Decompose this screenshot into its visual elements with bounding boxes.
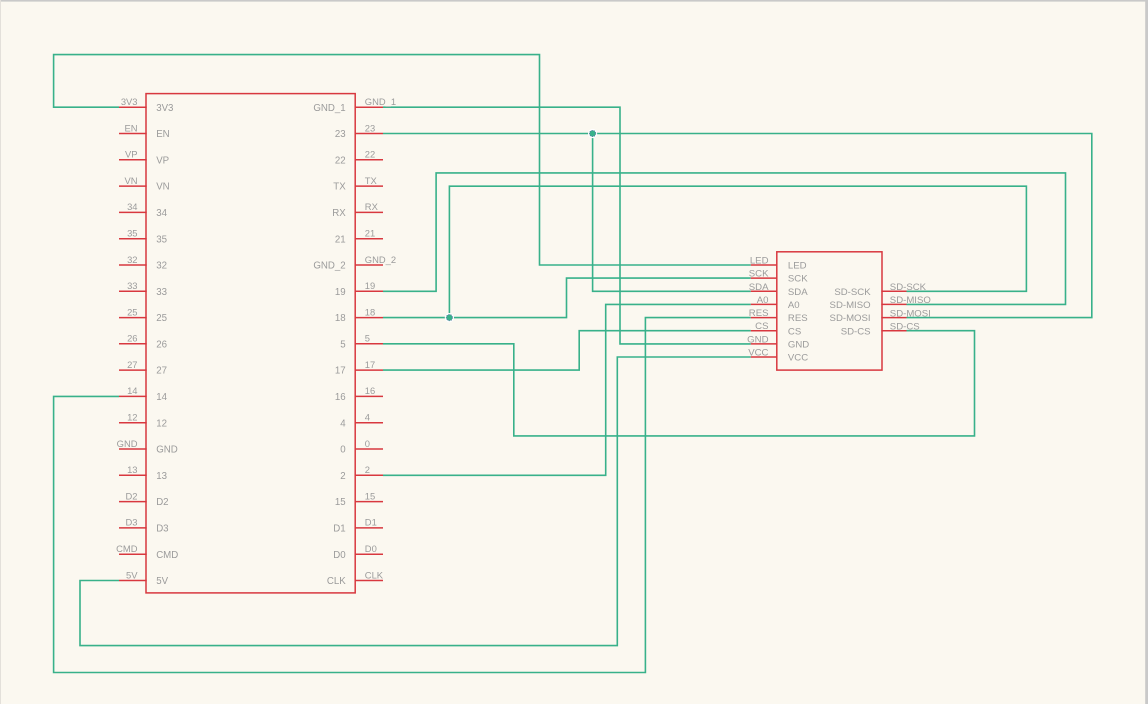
- svg-text:CMD: CMD: [156, 550, 178, 561]
- svg-text:18: 18: [335, 313, 346, 324]
- svg-text:12: 12: [127, 412, 137, 423]
- svg-text:A0: A0: [788, 300, 800, 311]
- svg-text:TX: TX: [333, 182, 346, 193]
- svg-text:D1: D1: [365, 517, 377, 528]
- svg-text:5V: 5V: [126, 569, 138, 580]
- svg-text:VP: VP: [156, 155, 169, 166]
- svg-text:D3: D3: [156, 524, 168, 535]
- svg-text:SD-CS: SD-CS: [890, 321, 920, 332]
- svg-text:13: 13: [127, 464, 137, 475]
- svg-text:VN: VN: [124, 175, 137, 186]
- svg-text:19: 19: [335, 287, 346, 298]
- svg-text:SD-MISO: SD-MISO: [830, 300, 871, 311]
- svg-text:5: 5: [365, 333, 370, 344]
- svg-text:16: 16: [335, 392, 346, 403]
- svg-text:D1: D1: [333, 524, 345, 535]
- svg-text:26: 26: [156, 339, 167, 350]
- svg-text:SCK: SCK: [788, 274, 808, 285]
- svg-text:25: 25: [127, 306, 137, 317]
- svg-text:D2: D2: [126, 490, 138, 501]
- svg-text:15: 15: [335, 497, 346, 508]
- svg-text:RX: RX: [332, 208, 346, 219]
- svg-text:3V3: 3V3: [156, 103, 173, 114]
- svg-text:21: 21: [365, 228, 375, 239]
- svg-text:A0: A0: [757, 295, 769, 306]
- svg-text:LED: LED: [788, 261, 807, 272]
- svg-text:SCK: SCK: [749, 269, 769, 280]
- svg-text:CS: CS: [755, 321, 768, 332]
- svg-text:GND_2: GND_2: [365, 254, 396, 265]
- svg-text:SD-SCK: SD-SCK: [890, 282, 927, 293]
- svg-text:GND_2: GND_2: [313, 261, 345, 272]
- svg-text:12: 12: [156, 418, 167, 429]
- svg-text:25: 25: [156, 313, 167, 324]
- svg-text:SDA: SDA: [788, 287, 808, 298]
- svg-text:SD-MISO: SD-MISO: [890, 295, 931, 306]
- svg-text:5V: 5V: [156, 576, 168, 587]
- svg-text:0: 0: [340, 445, 346, 456]
- svg-text:33: 33: [127, 280, 137, 291]
- svg-text:34: 34: [156, 208, 167, 219]
- svg-text:CS: CS: [788, 326, 801, 337]
- svg-text:SD-CS: SD-CS: [841, 326, 871, 337]
- svg-text:0: 0: [365, 438, 370, 449]
- svg-text:GND_1: GND_1: [313, 103, 345, 114]
- svg-text:GND: GND: [747, 334, 768, 345]
- svg-text:23: 23: [365, 122, 375, 133]
- svg-text:17: 17: [335, 366, 346, 377]
- svg-text:RES: RES: [788, 313, 808, 324]
- svg-text:3V3: 3V3: [121, 96, 138, 107]
- svg-text:33: 33: [156, 287, 167, 298]
- svg-text:GND: GND: [156, 445, 178, 456]
- svg-text:14: 14: [127, 385, 137, 396]
- svg-text:15: 15: [365, 490, 375, 501]
- svg-text:D3: D3: [126, 517, 138, 528]
- svg-text:4: 4: [365, 412, 370, 423]
- svg-text:GND: GND: [117, 438, 138, 449]
- svg-text:17: 17: [365, 359, 375, 370]
- svg-text:4: 4: [340, 418, 346, 429]
- svg-text:22: 22: [335, 155, 346, 166]
- svg-text:VCC: VCC: [748, 348, 768, 359]
- svg-text:32: 32: [127, 254, 137, 265]
- svg-text:19: 19: [365, 280, 375, 291]
- svg-text:D0: D0: [333, 550, 346, 561]
- svg-text:35: 35: [127, 228, 137, 239]
- svg-text:CMD: CMD: [116, 543, 138, 554]
- svg-text:5: 5: [340, 339, 345, 350]
- svg-text:GND: GND: [788, 340, 809, 351]
- svg-text:RX: RX: [365, 201, 379, 212]
- svg-text:16: 16: [365, 385, 375, 396]
- svg-text:VP: VP: [125, 149, 138, 160]
- svg-text:32: 32: [156, 261, 167, 272]
- svg-text:TX: TX: [365, 175, 378, 186]
- svg-text:26: 26: [127, 333, 137, 344]
- svg-text:EN: EN: [156, 129, 169, 140]
- svg-text:SD-MOSI: SD-MOSI: [890, 308, 931, 319]
- svg-text:LED: LED: [750, 256, 769, 267]
- svg-text:27: 27: [127, 359, 137, 370]
- svg-text:13: 13: [156, 471, 167, 482]
- svg-text:CLK: CLK: [365, 569, 384, 580]
- svg-text:EN: EN: [124, 122, 137, 133]
- svg-text:14: 14: [156, 392, 167, 403]
- svg-text:CLK: CLK: [327, 576, 346, 587]
- svg-text:SDA: SDA: [749, 282, 769, 293]
- svg-text:VCC: VCC: [788, 353, 808, 364]
- svg-text:D2: D2: [156, 497, 168, 508]
- svg-text:18: 18: [365, 306, 375, 317]
- svg-text:SD-MOSI: SD-MOSI: [830, 313, 871, 324]
- svg-text:2: 2: [340, 471, 345, 482]
- svg-text:D0: D0: [365, 543, 377, 554]
- svg-text:22: 22: [365, 149, 375, 160]
- svg-text:RES: RES: [749, 308, 769, 319]
- svg-text:34: 34: [127, 201, 137, 212]
- svg-text:VN: VN: [156, 182, 169, 193]
- svg-text:2: 2: [365, 464, 370, 475]
- svg-text:SD-SCK: SD-SCK: [834, 287, 871, 298]
- svg-text:23: 23: [335, 129, 346, 140]
- svg-text:35: 35: [156, 234, 167, 245]
- svg-text:27: 27: [156, 366, 167, 377]
- svg-text:21: 21: [335, 234, 346, 245]
- svg-text:GND_1: GND_1: [365, 96, 396, 107]
